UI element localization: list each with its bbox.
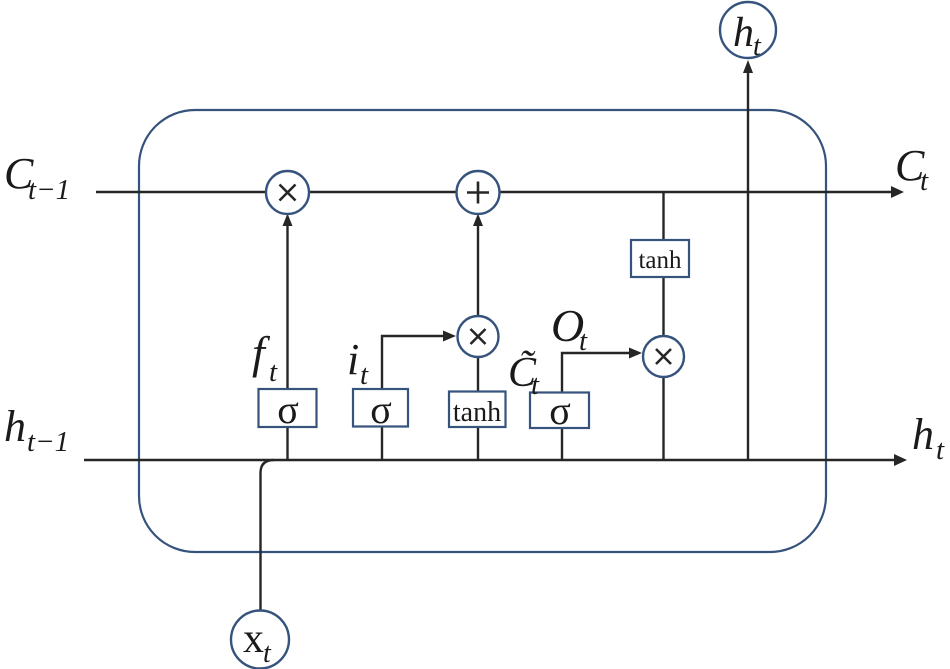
svg-text:t: t [263,638,272,669]
LSTM cell boundary (rounded rectangle) [139,110,826,552]
svg-text:i: i [347,335,359,384]
svg-text:tanh: tanh [453,397,501,428]
label: O_t (output gate) [551,300,588,357]
label: C_t (right output) [895,141,929,197]
svg-text:t: t [531,369,540,401]
gate box: sigma (input gate) [353,387,408,432]
svg-text:t: t [936,434,945,466]
svg-text:t: t [360,359,369,391]
svg-text:t−1: t−1 [27,426,69,458]
svg-text:t: t [920,165,929,197]
wire: candidate path from multiply node up into add node [473,214,483,461]
operator node: add on C line [457,171,500,214]
wire: input-gate elbow into multiply node [382,331,456,461]
node: x_t input circle (bottom) [231,611,289,669]
svg-text:t: t [753,31,762,62]
operator node: multiply (forget gate) on C line [266,171,309,214]
gate box: tanh (cell-state output) [631,240,689,277]
label: h_t (right output) [912,410,945,466]
gate box: sigma (forget gate) [259,387,317,432]
label: f_t (forget gate) [252,327,278,388]
label: C_{t-1} (left input) [4,149,70,206]
svg-text:σ: σ [549,388,571,433]
svg-text:x: x [243,616,264,662]
svg-text:t: t [579,325,588,357]
wire: cell-state line C (horizontal, y=192) [96,186,904,198]
svg-text:h: h [733,10,754,56]
operator node: multiply (output gate x tanh) [643,336,684,377]
wire: cell-state tap down through tanh to right multiply node [662,192,664,460]
wire: x_t input branch with rounded corner [261,460,275,610]
operator node: multiply (input gate x candidate) [458,316,499,357]
svg-text:t: t [269,356,278,388]
wire: output-gate elbow into right multiply node [562,348,642,461]
svg-text:t−1: t−1 [28,174,70,206]
svg-text:h: h [4,402,26,451]
wire: hidden-state riser up to h_t output with arrow [743,60,753,460]
wire: hidden-state line h (horizontal, y=460) [84,454,907,466]
svg-text:σ: σ [370,387,392,432]
label: i_t (input gate) [347,335,369,391]
svg-text:tanh: tanh [638,247,682,274]
gate box: tanh (candidate) [449,392,506,429]
wire: forget-gate riser with up arrow into multiply node [283,214,293,461]
svg-text:σ: σ [277,387,299,432]
label: h_{t-1} (left input) [4,402,69,458]
gate box: sigma (output gate) [530,388,589,433]
node: h_t output circle (top) [720,2,776,62]
svg-text:h: h [912,410,934,459]
label: C-tilde_t (candidate) [508,350,540,401]
